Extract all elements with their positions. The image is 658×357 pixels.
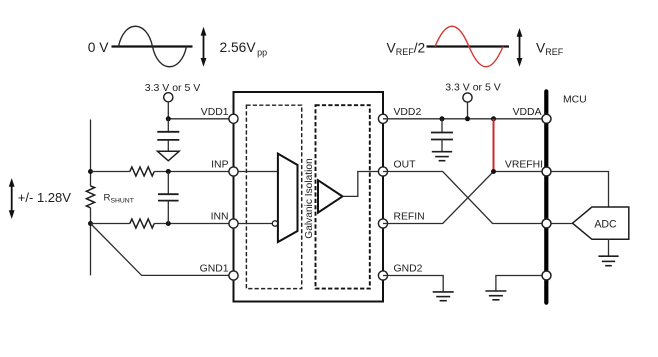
pin VDDA [542,114,551,123]
svg-text:3.3 V or 5 V: 3.3 V or 5 V [445,82,500,94]
pin VDD2 [378,114,387,123]
pin REFIN [378,219,387,228]
input waveform midline [112,45,193,47]
wire ADC to ground [608,239,610,256]
input sine wave [119,26,187,67]
svg-text:MCU: MCU [563,95,587,106]
svg-text:VDDA: VDDA [513,107,542,118]
node INN-cap junction [166,221,171,226]
node INP-cap junction [166,169,171,174]
pin VDD1 [229,114,238,123]
svg-text:Galvanic Isolation: Galvanic Isolation [304,158,315,238]
svg-text:3.3 V or 5 V: 3.3 V or 5 V [145,82,200,94]
modulator trapezoid [278,154,298,242]
node VDD1 junction [166,116,171,121]
svg-text:VDD2: VDD2 [394,107,422,118]
input amplitude arrow [201,27,207,67]
pin GND2 [378,271,387,280]
wire source vertical bottom [90,208,92,276]
svg-text:OUT: OUT [394,160,417,171]
wire REFIN to VREFHI crossing [383,172,542,224]
ADC block [573,207,629,239]
resistor INN filter [130,219,154,228]
wire source vertical top [90,120,92,187]
pin INN [229,219,238,228]
ground GND2 [433,292,454,301]
svg-text:ADC: ADC [594,219,617,231]
capacitor differential [158,172,179,224]
svg-text:INP: INP [211,160,228,171]
wire terminal to VDD1 node [167,102,169,119]
svg-text:INN: INN [211,212,229,223]
node VDD2 cap junction [440,116,445,121]
wire VDD1 [168,118,233,120]
ground VDD2 cap [432,152,452,161]
svg-text:GND1: GND1 [200,264,229,275]
svg-text:GND2: GND2 [394,264,423,275]
svg-text:0 V: 0 V [88,40,110,55]
ground MCU [485,291,506,300]
op-amp U1 package [234,92,384,302]
pin OUT [378,167,387,176]
ground signal triangle (VDD1) [158,151,180,161]
resistor INP filter [130,167,154,176]
capacitor VDD1 decoupling [157,119,179,151]
svg-text:VDD1: VDD1 [201,107,229,118]
svg-text:REFIN: REFIN [394,212,425,223]
ground ADC [598,256,618,266]
wire diagonal to GND1 [91,224,234,276]
terminal 3.3/5V right [463,93,472,102]
wire MCU pin to ADC input [551,223,572,225]
resistor RSHUNT [86,186,94,208]
wire VREFHI to ADC [551,172,608,208]
output sine wave (red) [435,26,503,67]
node source-INN junction [88,221,93,226]
inverting input bubble [272,221,277,226]
wire GND2 [383,276,443,292]
pin MCU ground [542,271,551,280]
wire INP internal [234,171,278,173]
pin VREFHI [542,167,551,176]
wire INN to pin [154,223,233,225]
wire VREFHI red link [493,119,495,172]
pin INP [229,167,238,176]
U1 left dashed box [246,105,301,288]
node red wire junction top [491,116,496,121]
wire INP lead [91,171,130,173]
svg-text:+/- 1.28V: +/- 1.28V [18,190,71,205]
wire INN lead [91,223,130,225]
pin ADC input [542,219,551,228]
wire VDD2 to VDDA [383,118,542,120]
wire MCU ground [496,276,542,291]
capacitor VDD2 decoupling [431,119,453,152]
U1 right dashed box [316,105,370,288]
node source-INP junction [88,169,93,174]
MCU bus bar [544,91,548,302]
wire INN internal [234,223,273,225]
+/-1.28V amplitude arrow [9,178,15,219]
node red wire junction bottom [491,169,496,174]
wire amp output to OUT [343,172,384,197]
output amplitude arrow [517,28,523,67]
wire terminal to VDD2 net [467,102,469,119]
wire INP to pin [154,171,233,173]
amplifier triangle [318,180,343,212]
wire OUT to MCU crossing [383,172,542,224]
svg-text:VREFHI: VREFHI [505,160,543,171]
terminal 3.3/5V left [164,93,173,102]
pin GND1 [229,271,238,280]
output waveform midline [427,45,510,47]
node terminal junction [465,116,470,121]
